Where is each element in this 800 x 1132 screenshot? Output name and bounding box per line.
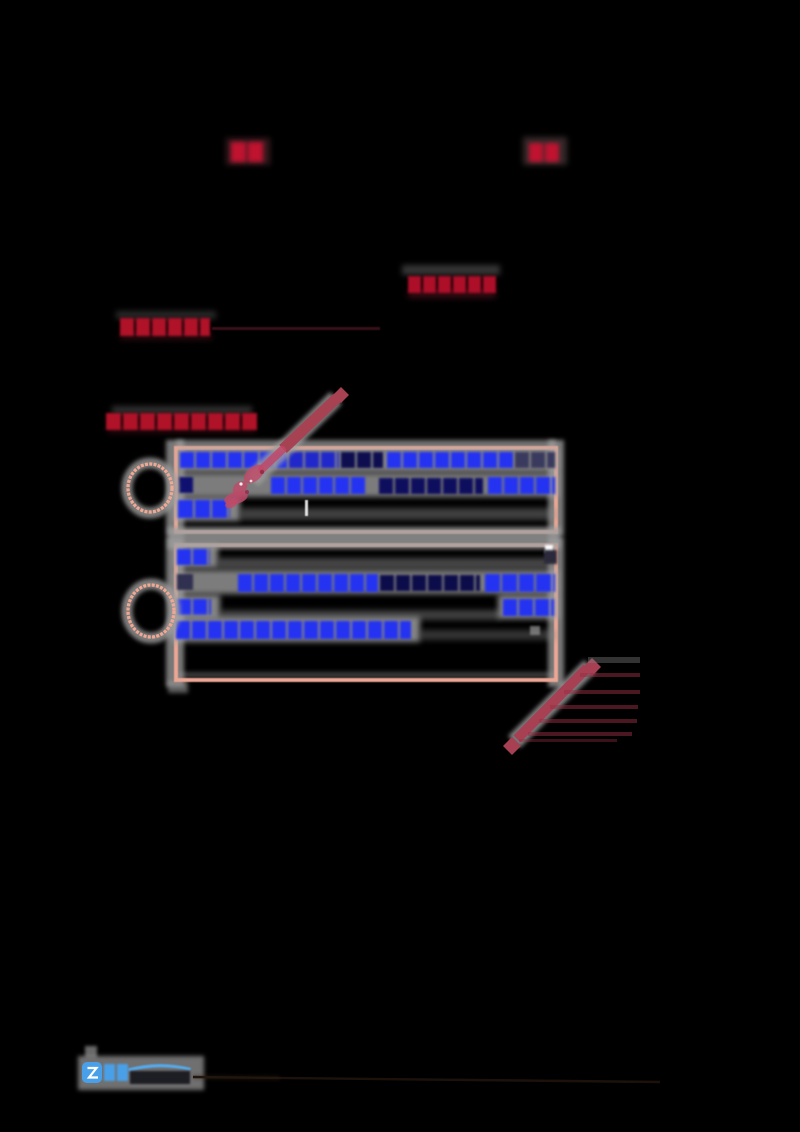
gray halo box2 line3 bbox=[174, 595, 220, 619]
box2 line1 faint right char bbox=[544, 550, 557, 564]
box1 line1 blue segment b bbox=[387, 452, 513, 468]
gray halo box1 line2 bbox=[178, 473, 558, 497]
red heading 2 bbox=[106, 413, 258, 430]
gray halo box2 line2 bbox=[174, 570, 558, 594]
gray halo behind top-right red label bbox=[523, 137, 567, 165]
long thin baseline bbox=[193, 1077, 660, 1082]
ghost streak 6 bbox=[519, 739, 617, 742]
gray halo behind logo bbox=[78, 1056, 204, 1090]
box2 line1 blue text bbox=[177, 549, 210, 565]
box2 line3 blue text right bbox=[503, 599, 554, 616]
red text left with rule bbox=[120, 318, 210, 336]
box1 line1 blue segment a bbox=[180, 452, 287, 468]
ghost streak 5 bbox=[528, 732, 632, 736]
red label top-right bbox=[529, 143, 560, 162]
top arrow head diamond bbox=[333, 387, 349, 403]
gray halo box1 line3 bbox=[174, 497, 240, 521]
ghost streak 3 bbox=[550, 705, 638, 709]
dark tagline under swoosh bbox=[130, 1071, 190, 1084]
gray shadow of bottom arrow bbox=[514, 666, 590, 742]
top arrow tail scribble bbox=[262, 450, 282, 469]
dark red smear below left red text bbox=[120, 334, 212, 340]
bottom arrow tail tip bbox=[503, 737, 521, 755]
box 2 salmon border bbox=[174, 543, 558, 682]
gray frame glow around box 1 bbox=[166, 440, 184, 536]
gray halo behind top-left red label bbox=[226, 138, 270, 165]
box1 line3 blue text bbox=[178, 500, 230, 518]
white caret mark bbox=[305, 500, 308, 516]
bottom arrow head diamond bbox=[583, 658, 601, 676]
logo blue text bbox=[104, 1064, 115, 1081]
dark red smear below center heading bbox=[408, 290, 496, 298]
bottom arrow main bar bbox=[517, 668, 587, 739]
box2 line3 blue text left bbox=[177, 599, 211, 615]
white speck at junction right bbox=[545, 545, 553, 553]
gray halo circle 1 bbox=[127, 463, 173, 513]
box1 line2 dim navy segment bbox=[379, 478, 483, 494]
box2 line2 blue segment a bbox=[238, 574, 378, 592]
gray halo circle 2 bbox=[127, 584, 175, 638]
ghost streak 2 bbox=[564, 690, 640, 694]
red center heading bbox=[408, 276, 497, 293]
gray smear above red heading 2 bbox=[112, 406, 252, 414]
gray halo box2 line3 right bbox=[498, 595, 558, 619]
box1 line2 blue segment b bbox=[488, 477, 555, 494]
ghost streak gray bbox=[588, 657, 640, 663]
dark red smear below red heading 2 bbox=[108, 428, 256, 433]
box2 line2 dim navy segment bbox=[380, 575, 480, 591]
gray halo box2 line1 bbox=[174, 545, 218, 568]
gray smear above center heading bbox=[402, 265, 500, 275]
gray smear above left red text bbox=[116, 311, 216, 319]
box1 line2 blue segment a bbox=[271, 477, 365, 494]
ghost streak 1 bbox=[580, 673, 640, 677]
gray shadow of top arrow bbox=[252, 398, 336, 480]
ghost streak 4 bbox=[539, 719, 637, 723]
box2 line4 blue text bbox=[176, 621, 411, 639]
salmon circle 1 bbox=[128, 464, 172, 512]
gray halo box2 line4 bbox=[172, 617, 420, 642]
box2 line2 blue segment b bbox=[485, 574, 555, 592]
box2 line2 faint first char bbox=[177, 574, 193, 590]
red label top-left bbox=[231, 142, 265, 162]
logo swoosh bbox=[128, 1064, 191, 1071]
box1 line1 dark segment bbox=[341, 452, 383, 468]
box1 line1 dim tail bbox=[515, 452, 555, 468]
salmon circle 2 bbox=[128, 585, 174, 637]
box1 line2 dark first char bbox=[179, 477, 193, 493]
gray halo box1 line1 bbox=[178, 448, 558, 472]
logo blue square with z bbox=[82, 1062, 102, 1083]
dark maroon horizontal rule bbox=[212, 327, 380, 330]
gray junction band between boxes bbox=[168, 527, 560, 549]
box2 line4 gray speck right bbox=[530, 626, 540, 635]
box 1 salmon border bbox=[174, 446, 558, 534]
gray frame glow around box 2 bbox=[166, 537, 184, 687]
top arrow main bar bbox=[283, 398, 337, 449]
